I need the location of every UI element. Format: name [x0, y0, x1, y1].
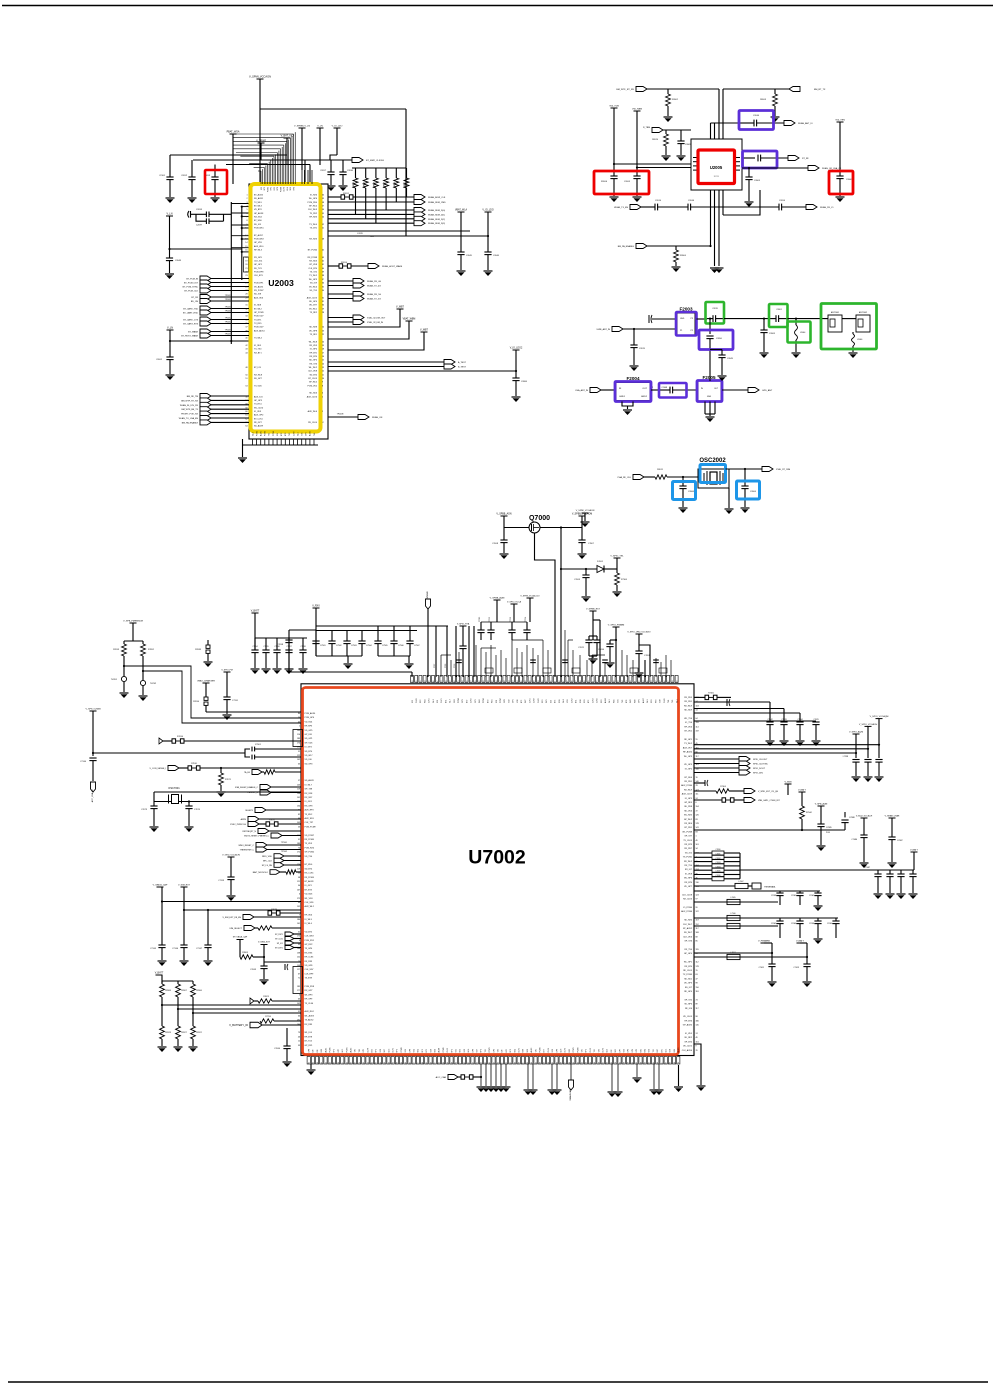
svg-text:TX1: TX1	[653, 1049, 655, 1052]
svg-text:C7907: C7907	[414, 645, 420, 647]
inductor L7017	[727, 954, 740, 959]
wire V_SPIO_YEL	[616, 558, 618, 573]
svg-text:PCM5: PCM5	[330, 1048, 332, 1053]
flag BM_WTF_RT_RX	[636, 87, 647, 92]
svg-text:VD4: VD4	[414, 1049, 416, 1053]
svg-text:WLAN_OR_CHA_OK: WLAN_OR_CHA_OK	[822, 167, 842, 170]
svg-text:R7068: R7068	[165, 990, 171, 992]
svg-text:GP_GP1: GP_GP1	[254, 264, 263, 266]
wire XTAL_32_KM_OUT	[328, 317, 353, 319]
svg-text:VD_AUX5: VD_AUX5	[254, 285, 264, 288]
flag WLAN_RX_IO	[806, 205, 817, 210]
svg-text:TX_CLK6: TX_CLK6	[305, 1003, 315, 1005]
svg-text:61: 61	[245, 415, 247, 417]
svg-text:51: 51	[445, 681, 447, 683]
svg-text:SD1: SD1	[584, 700, 586, 704]
svg-text:13: 13	[322, 367, 324, 369]
svg-text:SD8: SD8	[580, 700, 582, 704]
svg-text:93: 93	[313, 1062, 315, 1064]
wire F2004 gnd	[622, 402, 633, 407]
svg-text:PCM8: PCM8	[401, 1048, 403, 1053]
svg-text:99: 99	[405, 1062, 407, 1064]
svg-text:RF_BT1: RF_BT1	[310, 352, 318, 354]
svg-text:BT_SD6: BT_SD6	[254, 220, 262, 222]
svg-text:SD4: SD4	[418, 1049, 420, 1053]
svg-text:R2054: R2054	[374, 181, 376, 188]
svg-text:WL7: WL7	[450, 699, 452, 703]
svg-text:76: 76	[696, 1050, 698, 1052]
svg-text:R2056: R2056	[394, 181, 396, 188]
svg-text:184: 184	[297, 919, 300, 921]
wire cap bank rail 1	[316, 625, 448, 627]
svg-text:R2053: R2053	[363, 181, 365, 188]
svg-text:R7071: R7071	[225, 779, 232, 781]
svg-text:59: 59	[447, 1062, 449, 1064]
svg-text:WL1: WL1	[342, 1049, 344, 1053]
svg-text:AUX_CLK3: AUX_CLK3	[307, 296, 318, 299]
svg-text:V_BATTERY_ID: V_BATTERY_ID	[229, 1023, 248, 1027]
svg-text:85: 85	[696, 941, 698, 943]
wire to Q7000 gate	[504, 527, 529, 529]
svg-text:V_SPIO_VCCACH: V_SPIO_VCCACH	[859, 723, 878, 726]
svg-text:RF_PCM8: RF_PCM8	[308, 257, 318, 259]
svg-text:CLK_SD7: CLK_SD7	[305, 969, 315, 971]
wire group E	[636, 1064, 638, 1077]
svg-text:47: 47	[696, 978, 698, 980]
svg-text:R7090: R7090	[193, 701, 200, 703]
svg-text:36: 36	[521, 681, 523, 683]
svg-text:31: 31	[298, 931, 300, 933]
svg-text:SPIO_DOUT: SPIO_DOUT	[753, 768, 766, 770]
svg-text:40: 40	[245, 338, 247, 340]
svg-text:50: 50	[674, 1062, 676, 1064]
svg-text:93: 93	[298, 944, 300, 946]
wire bus2 to IC	[304, 160, 306, 184]
svg-text:111: 111	[696, 794, 699, 796]
svg-text:SD1: SD1	[651, 700, 653, 704]
svg-text:RF1: RF1	[271, 187, 273, 190]
svg-text:WLAN_ANT_IO: WLAN_ANT_IO	[798, 122, 813, 125]
svg-text:8: 8	[322, 385, 323, 387]
capacitor C7112	[487, 629, 494, 631]
resistor R7067	[177, 981, 179, 984]
wire USB line	[93, 752, 245, 754]
svg-text:118: 118	[696, 991, 699, 993]
svg-text:SD_AUX8: SD_AUX8	[305, 779, 315, 782]
svg-text:IO_SD5: IO_SD5	[254, 345, 262, 347]
ground under C2048	[165, 273, 174, 275]
capacitor C7087b	[888, 836, 895, 838]
svg-text:WLAN_TX_5G: WLAN_TX_5G	[367, 298, 381, 301]
svg-text:PCM9: PCM9	[577, 1048, 579, 1053]
svg-text:C7131: C7131	[232, 700, 239, 702]
wire to cap bank right	[740, 869, 914, 871]
wire cap bank rail 2	[316, 630, 417, 632]
capacitor C2101	[169, 155, 171, 177]
svg-text:83: 83	[696, 831, 698, 833]
svg-text:31: 31	[529, 681, 531, 683]
ground under L7008	[886, 893, 895, 895]
wire V_SPB_AQM down	[820, 806, 822, 824]
svg-text:C7906: C7906	[398, 645, 404, 647]
svg-text:V60_YDB: V60_YDB	[609, 106, 619, 108]
svg-text:VD_IO2: VD_IO2	[685, 852, 693, 854]
svg-text:31: 31	[245, 305, 247, 307]
svg-text:65: 65	[420, 681, 422, 683]
svg-text:36: 36	[649, 1062, 651, 1064]
svg-text:CLK_TX7: CLK_TX7	[305, 822, 315, 824]
svg-text:RX4: RX4	[645, 1049, 647, 1053]
svg-text:CLK6: CLK6	[367, 1048, 369, 1053]
svg-text:CLK9: CLK9	[548, 1048, 550, 1053]
svg-text:58: 58	[322, 202, 324, 204]
svg-text:PCM5: PCM5	[256, 431, 258, 436]
wire VCCAOM to U7002	[560, 528, 562, 678]
svg-text:TP2019: TP2019	[225, 330, 232, 332]
wire into U2005 top	[718, 89, 720, 139]
svg-text:TP2019: TP2019	[225, 334, 232, 336]
svg-text:12: 12	[245, 235, 247, 237]
svg-text:51: 51	[322, 228, 324, 230]
capacitor C7011	[768, 963, 775, 965]
svg-text:83: 83	[696, 819, 698, 821]
svg-text:VD_TX0: VD_TX0	[305, 856, 313, 858]
svg-text:VD_WL6: VD_WL6	[309, 286, 318, 288]
svg-text:117: 117	[696, 1008, 699, 1010]
svg-text:C7905: C7905	[382, 645, 388, 647]
svg-text:V_BATT: V_BATT	[910, 849, 918, 852]
svg-text:46: 46	[653, 1062, 655, 1064]
svg-text:WL4: WL4	[287, 187, 289, 191]
svg-text:71: 71	[678, 1062, 680, 1064]
svg-text:GP1: GP1	[639, 699, 641, 703]
svg-text:VD_IO6: VD_IO6	[305, 759, 313, 761]
wire V_SIM_EXT down	[183, 887, 185, 945]
resistor R7066	[192, 981, 194, 984]
capacitor bank C7087 L7008 C7089 L7009	[877, 870, 879, 874]
svg-text:PLM: PLM	[826, 832, 830, 834]
svg-text:54: 54	[322, 217, 324, 219]
svg-text:TX_RF2: TX_RF2	[310, 312, 318, 314]
svg-text:V_SPMI_VCCAON: V_SPMI_VCCAON	[576, 509, 595, 512]
svg-text:WL_RF6: WL_RF6	[684, 878, 693, 880]
svg-text:60: 60	[298, 1015, 300, 1017]
svg-text:39: 39	[322, 272, 324, 274]
svg-text:IO_VD3: IO_VD3	[254, 411, 262, 413]
svg-text:C2048: C2048	[661, 387, 667, 389]
svg-text:15: 15	[245, 246, 247, 248]
svg-text:BT_IO9: BT_IO9	[254, 367, 262, 369]
svg-text:PCM1: PCM1	[573, 1048, 575, 1053]
svg-text:BT_MM2_CLK200: BT_MM2_CLK200	[366, 160, 385, 162]
flag TA_EK	[252, 770, 262, 775]
svg-text:C7090: C7090	[598, 649, 605, 651]
svg-text:63: 63	[477, 1062, 479, 1064]
svg-text:SD_TX3: SD_TX3	[254, 268, 262, 270]
svg-text:VD_PCM7: VD_PCM7	[305, 835, 315, 837]
svg-text:L2064: L2064	[800, 332, 805, 334]
svg-text:TX_CLK9: TX_CLK9	[683, 840, 693, 842]
wire V_IO_LDO stub	[336, 128, 338, 155]
svg-text:9: 9	[696, 1046, 697, 1048]
svg-text:57: 57	[322, 206, 324, 208]
svg-text:PCM_RF1: PCM_RF1	[254, 283, 264, 285]
resistor R7089	[207, 640, 209, 645]
svg-text:2: 2	[246, 198, 247, 200]
svg-text:15: 15	[322, 360, 324, 362]
wire osc gnd	[728, 488, 730, 508]
svg-text:R2054: R2054	[341, 262, 348, 264]
capacitor C7145	[158, 944, 165, 946]
svg-text:28: 28	[245, 294, 247, 296]
resistor R7130 inline	[461, 1075, 465, 1079]
svg-text:TX_BT8: TX_BT8	[305, 978, 313, 980]
svg-text:SD6: SD6	[527, 1049, 529, 1053]
svg-text:BT2: BT2	[588, 700, 590, 703]
wire bottom pin bracket	[243, 444, 319, 446]
svg-text:SPID_CLKOUT: SPID_CLKOUT	[753, 759, 768, 761]
svg-text:117: 117	[696, 928, 699, 930]
wire Q7000 source to U7002	[535, 533, 556, 677]
ground under C2063	[760, 352, 769, 354]
ground cap bank 2	[405, 663, 414, 665]
svg-text:V_BATT: V_BATT	[798, 789, 806, 792]
svg-text:VD1: VD1	[456, 1049, 458, 1053]
svg-text:63: 63	[517, 681, 519, 683]
svg-text:150: 150	[696, 987, 699, 989]
highlight box green C2070	[706, 302, 725, 324]
svg-text:R2052: R2052	[353, 181, 355, 188]
thermistor THT01	[121, 676, 126, 681]
wire rail stub	[468, 626, 470, 677]
svg-text:21: 21	[245, 268, 247, 270]
resistor R7023 row	[250, 998, 254, 1004]
svg-text:RF0: RF0	[293, 187, 295, 190]
ground	[633, 196, 642, 198]
svg-text:RF3: RF3	[510, 1049, 512, 1052]
svg-text:SD1: SD1	[615, 1049, 617, 1053]
svg-text:RF_RX1: RF_RX1	[684, 781, 693, 783]
ground under C7240	[875, 776, 884, 778]
svg-text:140: 140	[696, 768, 699, 770]
svg-text:4: 4	[246, 206, 247, 208]
ground under C2019	[630, 365, 639, 367]
svg-text:WL_WL8: WL_WL8	[309, 341, 318, 343]
svg-text:WL_PCM8: WL_PCM8	[682, 831, 693, 833]
capacitor C2007	[757, 155, 759, 162]
svg-text:BM_RF_TM: BM_RF_TM	[187, 396, 198, 398]
svg-text:TX4: TX4	[668, 700, 670, 703]
svg-text:BT_SD4: BT_SD4	[684, 777, 692, 779]
wire left bus 1	[170, 154, 287, 156]
svg-text:SD0: SD0	[435, 1049, 437, 1053]
svg-text:V_VED_VCCAON: V_VED_VCCAON	[222, 854, 240, 857]
wire BT_MM2 clk node	[300, 159, 352, 161]
svg-text:RX_RF6: RX_RF6	[684, 823, 693, 825]
wire V_SPIO_VCCA	[513, 604, 515, 622]
svg-text:RX7: RX7	[525, 700, 527, 704]
highlight box blue C2064	[737, 481, 760, 499]
svg-text:161: 161	[696, 1041, 699, 1043]
svg-text:BM_WTF_RT_RX: BM_WTF_RT_RX	[181, 400, 198, 402]
svg-text:50: 50	[245, 374, 247, 376]
svg-text:WL_RX5: WL_RX5	[684, 815, 693, 817]
svg-text:19: 19	[580, 681, 582, 683]
svg-text:130: 130	[696, 882, 699, 884]
svg-text:RF3: RF3	[481, 1049, 483, 1052]
svg-text:20: 20	[322, 341, 324, 343]
svg-text:58: 58	[317, 1062, 319, 1064]
svg-text:62: 62	[245, 418, 247, 420]
svg-text:189: 189	[297, 738, 300, 740]
svg-text:87: 87	[468, 1062, 470, 1064]
svg-text:RF_BT6: RF_BT6	[685, 1020, 693, 1022]
inductor L7107 row	[694, 925, 778, 927]
capacitor C7114	[523, 629, 530, 631]
svg-text:5: 5	[322, 396, 323, 398]
capacitor C2009	[680, 130, 682, 141]
svg-text:VD9: VD9	[624, 1049, 626, 1053]
wire left to top pins	[289, 671, 412, 673]
svg-text:VD9: VD9	[405, 1049, 407, 1053]
svg-text:12: 12	[322, 371, 324, 373]
svg-text:6: 6	[299, 894, 300, 896]
svg-text:WMO_RESET_C: WMO_RESET_C	[239, 845, 255, 847]
svg-text:48: 48	[245, 367, 247, 369]
svg-text:GP_TX7: GP_TX7	[684, 836, 693, 838]
wire L2070 net	[328, 235, 488, 237]
capacitor C2045	[457, 251, 464, 253]
svg-text:IO_GP2: IO_GP2	[685, 768, 693, 770]
svg-text:64: 64	[245, 426, 247, 428]
capacitor C2063 shunt	[763, 319, 765, 330]
svg-text:159: 159	[696, 731, 699, 733]
wire VDDSPMME to pin	[427, 609, 429, 677]
svg-text:143: 143	[297, 784, 300, 786]
svg-text:32: 32	[559, 681, 561, 683]
svg-text:VBAT_WBM: VBAT_WBM	[403, 318, 416, 321]
svg-text:IO_SD8: IO_SD8	[254, 305, 262, 307]
svg-text:75: 75	[458, 681, 460, 683]
svg-text:C7086: C7086	[851, 839, 857, 841]
ground under R7068	[158, 1046, 167, 1048]
svg-text:41: 41	[322, 264, 324, 266]
svg-text:29: 29	[401, 1062, 403, 1064]
svg-text:SPID_CLKTINC: SPID_CLKTINC	[753, 764, 768, 766]
svg-text:TX_RX1: TX_RX1	[254, 404, 262, 406]
svg-text:96: 96	[429, 681, 431, 683]
capacitor C7147	[204, 944, 211, 946]
svg-text:C2050: C2050	[716, 338, 723, 340]
svg-text:PCM7: PCM7	[500, 698, 502, 703]
svg-text:CLK_AUX6: CLK_AUX6	[682, 1049, 693, 1052]
capacitor C7061	[477, 629, 484, 631]
ground under THT02	[139, 695, 148, 697]
flag VBB_CAPL	[744, 798, 755, 803]
ground under R2002	[664, 116, 673, 118]
svg-text:SD_RX0: SD_RX0	[684, 920, 693, 922]
svg-text:58: 58	[622, 681, 624, 683]
svg-text:IO4: IO4	[277, 433, 279, 436]
antenna module ANT2002	[856, 315, 870, 332]
svg-text:PCM9: PCM9	[273, 431, 275, 436]
svg-text:WLAN_TX_EN: WLAN_TX_EN	[614, 206, 628, 209]
svg-text:C7095: C7095	[716, 871, 721, 873]
ground under C7087	[888, 862, 897, 864]
svg-text:C2097: C2097	[196, 225, 203, 227]
svg-text:BM_WTF_BE_TX: BM_WTF_BE_TX	[181, 409, 198, 411]
svg-text:42: 42	[322, 261, 324, 263]
svg-text:GP_GP5: GP_GP5	[254, 400, 263, 402]
svg-text:PCM_RX1: PCM_RX1	[305, 940, 315, 942]
svg-text:TX_WL2: TX_WL2	[309, 275, 318, 277]
svg-text:145: 145	[696, 1025, 699, 1027]
flag GPS_ANT	[748, 388, 759, 393]
svg-text:C7093: C7093	[716, 862, 721, 864]
svg-text:VD_RF6: VD_RF6	[684, 1004, 693, 1006]
svg-text:161: 161	[696, 764, 699, 766]
svg-text:13: 13	[245, 239, 247, 241]
capacitor C2050	[709, 319, 711, 334]
ground under C7029	[812, 740, 821, 742]
capacitors C7142 C7028 C7084 C7029	[766, 721, 773, 723]
IC U7002 body	[301, 684, 694, 1056]
svg-text:CLK2: CLK2	[590, 1048, 592, 1053]
svg-text:GP_TX2: GP_TX2	[684, 999, 693, 1001]
capacitor C7013	[803, 963, 810, 965]
svg-text:R2055: R2055	[384, 181, 386, 188]
svg-text:TP2015: TP2015	[225, 295, 232, 297]
svg-text:RX6: RX6	[321, 1049, 323, 1053]
svg-text:177: 177	[297, 990, 300, 992]
svg-text:BT_VD1: BT_VD1	[684, 731, 692, 733]
wire V_WBT to pin	[328, 309, 400, 327]
svg-text:R7092: R7092	[148, 649, 155, 651]
svg-text:V_SPIW_VCCACCIO: V_SPIW_VCCACCIO	[520, 595, 540, 598]
svg-text:TX_WL2: TX_WL2	[684, 743, 693, 745]
ground small	[581, 521, 590, 523]
ground under R2003	[771, 116, 780, 118]
svg-text:C7029: C7029	[813, 719, 818, 721]
svg-text:7: 7	[460, 1062, 462, 1063]
svg-text:IO2: IO2	[412, 700, 414, 703]
svg-text:60: 60	[245, 411, 247, 413]
svg-text:77: 77	[576, 681, 578, 683]
svg-text:VD8: VD8	[670, 1049, 672, 1053]
svg-text:WLAN_SDM_D(1): WLAN_SDM_D(1)	[428, 213, 445, 216]
svg-text:BT8: BT8	[285, 433, 287, 436]
svg-text:PCM5: PCM5	[458, 698, 460, 703]
flag WLAN_HOST_WAKE	[368, 264, 379, 269]
wire to F2003	[652, 318, 676, 320]
svg-text:RX_WL9: RX_WL9	[684, 789, 693, 791]
svg-text:SD_GP4: SD_GP4	[309, 360, 318, 362]
svg-text:V_SPMM_V_LN: V_SPMM_V_LN	[294, 126, 310, 128]
ground under C2066	[679, 507, 688, 509]
svg-text:RF_WL3: RF_WL3	[254, 250, 263, 252]
highlight box yellow U2003	[251, 184, 321, 432]
svg-text:46: 46	[298, 1036, 300, 1038]
wire WLAN_RX_5G	[328, 293, 353, 295]
svg-text:96: 96	[351, 1062, 353, 1064]
wire V_SPBB_VCCAOM	[581, 516, 583, 540]
wire WLAN_SDM_D(2)	[328, 218, 414, 220]
svg-text:CLK2: CLK2	[571, 699, 573, 704]
ladder stubs to U2003 pins	[231, 203, 249, 205]
svg-text:A_TEST: A_TEST	[458, 361, 467, 364]
svg-text:PCM1: PCM1	[489, 1048, 491, 1053]
resistor R7106	[615, 573, 620, 585]
